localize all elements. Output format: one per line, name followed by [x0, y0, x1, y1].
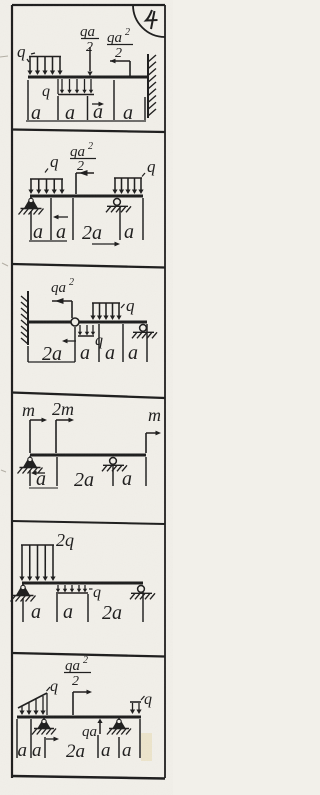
panel4 dimension arrow	[31, 471, 45, 476]
panel5 dimension extension lines	[23, 592, 143, 622]
panel1 beam	[28, 75, 148, 78]
panel1 dimension labels a a a a	[31, 101, 133, 124]
panel1 dimension arrow	[92, 102, 104, 107]
yellow age smudge bottom right	[141, 733, 152, 761]
panel6 label q left tick	[47, 687, 51, 691]
panel6 dimension labels a a 2a a a	[18, 740, 132, 762]
paper grain overlay	[0, 0, 1, 1]
panel2 label q left tick	[45, 169, 48, 173]
panel4 pin support left	[18, 457, 43, 474]
panel2 pin support left	[19, 198, 44, 215]
panel4 moment m right	[146, 431, 161, 453]
panel3 label qa2	[51, 277, 74, 296]
scan smudges	[0, 56, 8, 472]
panel3 roller support right	[132, 325, 157, 339]
panel1 label qa2/2 fraction	[107, 27, 133, 61]
panel3 label q top tick	[121, 304, 125, 308]
panel3 fixed wall support left	[21, 291, 28, 345]
panel3 dimension labels 2a a a a	[42, 342, 138, 365]
panel6 pin support 2	[107, 719, 131, 735]
panel3 hinge circle	[71, 318, 79, 326]
panel6 label q right tick	[141, 696, 145, 700]
panel4 dimension baseline	[29, 487, 58, 489]
panel3 dimension baseline	[28, 361, 75, 363]
panel4 moment 2m	[56, 418, 74, 453]
panel5 roller support right	[130, 586, 155, 600]
panel5 distributed load q under beam	[56, 585, 88, 593]
panel5 label q under	[89, 584, 101, 601]
panel6 distributed load q right end	[130, 702, 142, 714]
panel6 beam	[17, 715, 141, 718]
panel5 pin support left	[11, 585, 36, 602]
panel3 dimension arrow	[62, 339, 76, 344]
panel5 distributed load 2q tall	[19, 545, 55, 581]
panel6 dimension arrow	[46, 737, 59, 742]
panel3 beam	[28, 320, 147, 323]
panel4 dimension extension lines	[30, 457, 146, 486]
panel6 point force qa upward	[97, 719, 102, 735]
panel1 dimension extension lines	[28, 80, 145, 120]
panel1 moment qa2/2 arrow	[110, 59, 130, 76]
panel2 dimension extension lines	[31, 198, 143, 240]
panel2 dimension arrow	[53, 215, 68, 220]
panel3 distributed load q under beam	[78, 325, 95, 336]
panel3 moment qa2 arrow	[52, 298, 72, 318]
panel6 dimension extension lines	[17, 719, 140, 758]
panel3 dimension extension lines	[28, 324, 147, 362]
panel3 distributed load q top	[90, 303, 121, 320]
panel1 fixed wall support right	[148, 54, 156, 118]
grid outer frame and separators	[12, 5, 165, 779]
panel4 beam	[30, 453, 146, 456]
panel1 distributed load q under beam segment2	[58, 79, 94, 95]
panel6 moment qa2/2 arrow	[73, 690, 92, 715]
panel2 distributed load q right	[112, 178, 143, 194]
panel4 roller support	[102, 458, 127, 472]
panel1 label q tick	[27, 59, 29, 62]
panel2 dimension baseline left	[29, 240, 67, 242]
panel1 point force qa/2	[87, 47, 92, 76]
panel4 moment m left	[30, 418, 47, 453]
panel2 distributed load q left	[28, 179, 64, 194]
panel2 dimension labels a a 2a a	[33, 221, 134, 244]
panel5 dimension labels a a 2a	[31, 601, 122, 624]
panel2 label q right tick	[142, 173, 145, 177]
panel5 beam	[22, 581, 143, 584]
panel4 dimension labels a 2a a	[36, 468, 132, 491]
panel2 moment qa2/2 arrow	[76, 170, 94, 194]
panel6 pin support 1	[32, 719, 56, 735]
panel1 dimension baseline	[26, 120, 146, 122]
panel1 label qa/2 fraction	[80, 24, 99, 55]
panel2 label qa2/2 fraction	[70, 141, 96, 174]
panel2 roller support	[106, 199, 131, 213]
panel2 dimension baseline right with arrow	[92, 242, 120, 247]
panel2 beam	[30, 194, 143, 197]
page background paper	[0, 0, 173, 795]
page number 4	[146, 10, 158, 29]
page number corner arc	[133, 5, 165, 37]
panel1 distributed load q left segment	[27, 57, 62, 76]
panel6 triangular distributed load q	[18, 693, 47, 715]
panel6 label qa2/2 fraction	[64, 655, 91, 689]
